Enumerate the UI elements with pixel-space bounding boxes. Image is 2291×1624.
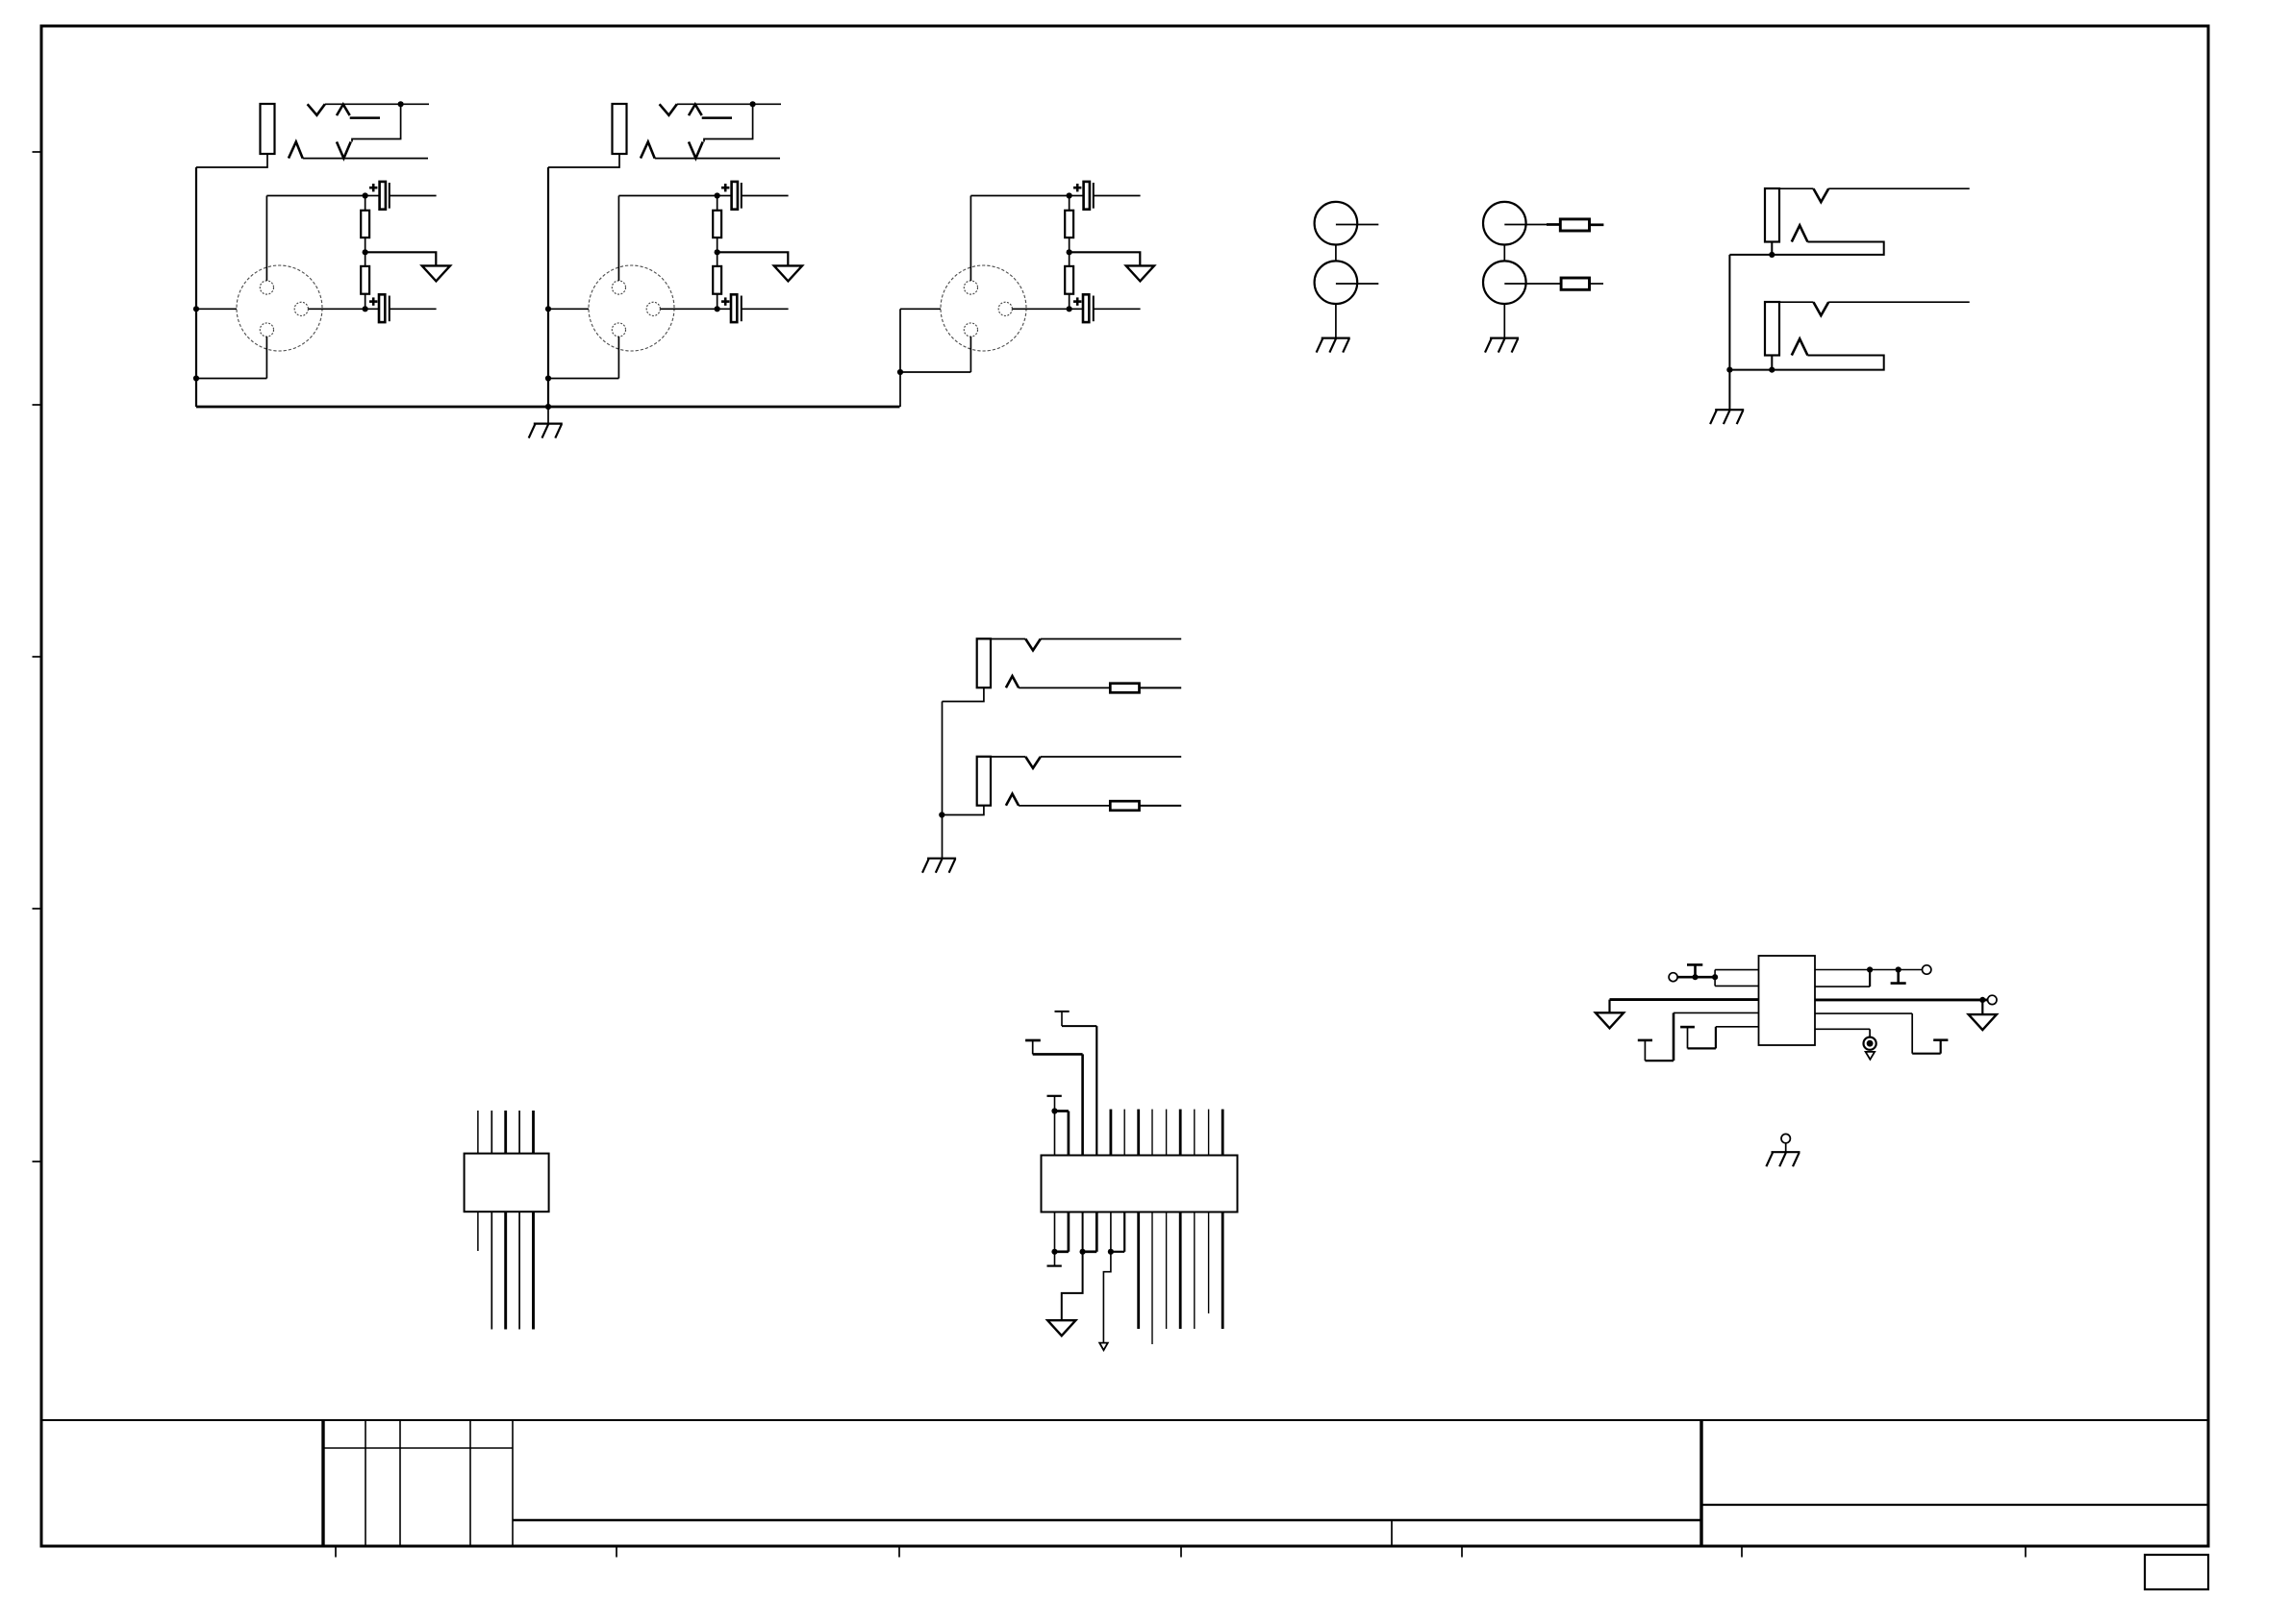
- wire ground rail channel 1: [195, 167, 197, 407]
- connector JP1 (6-pin header): [465, 1154, 549, 1212]
- node A2: [715, 192, 720, 198]
- wire U1 pin R1 to pad: [1815, 966, 1923, 972]
- wire X2 pin2 line: [545, 306, 731, 312]
- wire test point TP1 (left): [1677, 976, 1715, 979]
- chassis ground below bus: [529, 407, 563, 438]
- wire JP2 pin1-2 top: [1055, 1112, 1069, 1156]
- pad circle bus right: [1988, 995, 1997, 1004]
- RCA connector pair right (bottom): [1483, 261, 1561, 304]
- RCA connector pair right (top): [1483, 202, 1560, 245]
- ground (signal) right of U1: [1969, 1014, 1997, 1030]
- wire thick bus left of U1: [1610, 1000, 1759, 1013]
- node B2: [715, 249, 720, 255]
- wires JP2 pins 7-13 bottom: [1139, 1212, 1223, 1345]
- ground (signal) below JP2: [1047, 1320, 1075, 1336]
- connector JP2 (13-pin header): [1042, 1156, 1238, 1212]
- wire J1 sleeve to ground rail: [196, 154, 267, 167]
- node A1: [363, 192, 368, 198]
- jack J5 (right pair bottom): [1765, 302, 1970, 356]
- resistor R2b: [713, 252, 721, 309]
- capacitor C1a (polarized): [365, 182, 437, 210]
- wire middle jacks ground rail: [939, 702, 944, 859]
- ground (signal) channel 3: [1126, 265, 1154, 281]
- capacitor stub symbol left: [1687, 964, 1702, 980]
- chassis ground RCA left: [1317, 338, 1350, 353]
- chassis ground right jacks: [1710, 410, 1744, 424]
- earth pad ring: [1864, 1037, 1876, 1050]
- wire X2 pin1 to node A2: [618, 196, 717, 282]
- jack J6 (middle pair top): [977, 638, 1181, 687]
- arrow below earth pad: [1866, 1052, 1876, 1060]
- wires JP1 bottom pins: [478, 1212, 534, 1329]
- jack J7 (middle pair bottom): [977, 757, 1181, 806]
- wire X1 pin2 line: [193, 306, 379, 312]
- wire U1 pin L5 network: [1680, 1027, 1758, 1049]
- wire X3 pin1 to node A3: [970, 196, 1069, 282]
- frame tick marks bottom edge: [336, 1546, 2026, 1558]
- resistor R3b: [1065, 252, 1073, 309]
- capacitor C3b (polarized): [1073, 294, 1141, 322]
- node C3: [1067, 306, 1072, 312]
- resistor R3a: [1065, 196, 1073, 253]
- wire node B1 to ground: [365, 252, 437, 265]
- capacitor stub above JP2 pin3: [1025, 1040, 1041, 1054]
- wire thick bus right of U1: [1815, 997, 1988, 1014]
- resistor R10 (RCA right top): [1560, 219, 1603, 231]
- title block right section: [1701, 1420, 2208, 1545]
- wire U1 pin R4 network: [1815, 1013, 1948, 1054]
- title block left cells: [323, 1420, 513, 1545]
- wire J7 sleeve down: [943, 806, 984, 815]
- resistor R1a: [361, 196, 369, 253]
- frame tick marks left edge: [33, 152, 42, 1162]
- wire JP2 pins3-4 bottom to ground: [1062, 1212, 1097, 1321]
- capacitor C3a (polarized): [1070, 182, 1141, 210]
- capacitor stub above JP2 pin4: [1055, 1012, 1070, 1026]
- wire J6 sleeve down: [943, 687, 984, 701]
- XLR connector X2: [589, 265, 674, 351]
- chassis ground RCA right: [1485, 338, 1519, 353]
- wire ground bus: [196, 406, 900, 409]
- ground (signal) channel 2: [774, 265, 802, 281]
- title block middle divider: [513, 1520, 1701, 1545]
- node C2: [715, 306, 720, 312]
- jack J1 (TRS input): [261, 104, 430, 159]
- wire node B2 to ground: [718, 252, 789, 265]
- resistor R1b: [361, 252, 369, 309]
- capacitor stub above JP2 pin1: [1047, 1096, 1062, 1114]
- wire JP2 pin4 top: [1062, 1026, 1096, 1155]
- node B1: [363, 249, 368, 255]
- chassis ground middle jacks: [922, 859, 956, 873]
- capacitor C1b (polarized): [369, 294, 437, 322]
- wires JP1 top pins: [478, 1111, 534, 1154]
- RCA connector pair left (top): [1315, 202, 1379, 245]
- wire JP2 pin2 bottom: [1055, 1212, 1069, 1252]
- jack J2 (TRS input): [613, 104, 782, 159]
- wire node B3 to ground: [1070, 252, 1141, 265]
- ground (signal) left of U1: [1596, 1012, 1624, 1028]
- arrow below JP2: [1099, 1343, 1108, 1351]
- wire U1 pin L4 network: [1638, 1012, 1759, 1061]
- node A3: [1067, 192, 1072, 198]
- resistor R11 (RCA right bottom): [1561, 278, 1603, 289]
- wire JP2 pins5-6 bottom to arrow: [1103, 1212, 1124, 1343]
- wire J2 tip normal to node: [704, 101, 756, 141]
- wire ground rail channel 2: [547, 167, 549, 407]
- resistor R12 (J6 ring): [1110, 684, 1181, 693]
- wire RCA left shield link: [1335, 245, 1337, 338]
- wire right jacks ground rail: [1728, 255, 1730, 410]
- jack J4 (right pair top): [1765, 188, 1970, 242]
- wire X3 pin2 line: [900, 308, 1083, 310]
- XLR connector X1: [237, 265, 322, 351]
- wire U1 pin R2 jumper: [1815, 970, 1870, 987]
- capacitor stub symbol right: [1891, 970, 1906, 984]
- node C1: [363, 306, 368, 312]
- op-amp U1 (IC block): [1759, 956, 1816, 1045]
- wire J1 tip normal to node: [352, 101, 404, 141]
- wire X1 pin3 to ground rail: [193, 337, 267, 382]
- XLR connector X3: [941, 265, 1026, 351]
- wire RCA right shield link: [1503, 245, 1505, 338]
- capacitor C2a (polarized): [718, 182, 789, 210]
- title block top line: [41, 1419, 2208, 1421]
- wire J5 ring loop to ground: [1726, 356, 1883, 373]
- wire JP2 pin3 top: [1033, 1054, 1083, 1155]
- capacitor C2b (polarized): [721, 294, 789, 322]
- resistor R13 (J7 ring): [1110, 801, 1181, 811]
- ground (signal) channel 1: [422, 265, 450, 281]
- sheet size box below frame: [2145, 1555, 2208, 1589]
- wire J4 ring loop to ground: [1729, 242, 1883, 259]
- RCA connector pair left (bottom): [1315, 261, 1379, 304]
- node B3: [1067, 249, 1072, 255]
- resistor R2a: [713, 196, 721, 253]
- node bus / channel2 rail: [545, 404, 551, 410]
- wire ground rail channel 3: [899, 309, 901, 407]
- wires JP2 pins 5-13 top: [1111, 1110, 1222, 1156]
- wire X1 pin1 to node A1: [266, 196, 365, 282]
- capacitor stub below JP2 pin1: [1047, 1212, 1062, 1266]
- chassis ground reference below U1: [1766, 1134, 1800, 1166]
- wire J2 sleeve to ground rail: [548, 154, 619, 167]
- wire X3 pin3 to ground rail: [897, 337, 971, 375]
- wire U1 pins 1-2 jumper (left): [1712, 970, 1759, 987]
- wire U1 pin R5 to earth pad: [1815, 1029, 1870, 1037]
- pad circle right top: [1923, 965, 1931, 974]
- pad TP1 circle: [1669, 973, 1677, 982]
- wire X2 pin3 to ground rail: [545, 337, 619, 382]
